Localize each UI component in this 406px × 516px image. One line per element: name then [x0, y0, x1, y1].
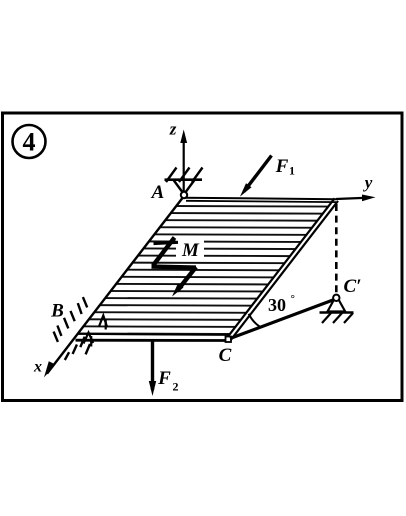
svg-text:C: C	[219, 345, 232, 366]
B support caret rods	[84, 316, 108, 347]
support at A: ceiling bar	[165, 178, 203, 181]
svg-text:M: M	[181, 240, 200, 261]
svg-text:1: 1	[289, 164, 295, 178]
z axis	[183, 134, 185, 194]
C' support ground line	[320, 311, 354, 314]
svg-text:30: 30	[268, 295, 286, 315]
z axis arrowhead	[180, 130, 187, 144]
support at A: V rod	[174, 180, 183, 193]
svg-text:A: A	[151, 182, 165, 203]
C' support triangle	[328, 300, 346, 312]
plate right edge (double line)	[227, 198, 335, 338]
x axis arrowhead	[44, 361, 56, 377]
rod C to C'	[230, 300, 333, 339]
angle arc at C	[249, 314, 261, 327]
force F2 arrow	[151, 339, 154, 390]
white halo behind M label	[176, 237, 204, 259]
svg-text:B: B	[50, 301, 64, 322]
svg-text:y: y	[363, 173, 373, 192]
y axis	[336, 198, 370, 199]
dashed line from top corner to C'	[335, 204, 338, 293]
marker square at C	[226, 337, 232, 343]
figure number circle 4	[13, 125, 46, 158]
plate bottom edge (double line)	[77, 334, 229, 335]
force F1 arrow	[244, 156, 272, 192]
B support lower hatching	[65, 337, 90, 360]
svg-text:z: z	[169, 120, 177, 139]
svg-text:F: F	[275, 156, 289, 177]
left edge + x axis line	[47, 196, 184, 374]
C' support ground hatches	[322, 313, 353, 323]
plate top edge (double line)	[184, 198, 336, 200]
B support hatching upper-left of edge	[54, 297, 88, 342]
support at A: ceiling hatches	[166, 168, 203, 183]
svg-text:C′: C′	[343, 276, 361, 297]
y axis arrowhead	[362, 195, 376, 202]
plate hatching	[60, 206, 345, 335]
svg-text:F: F	[157, 368, 171, 389]
border frame	[3, 113, 403, 401]
svg-text:°: °	[291, 293, 295, 305]
svg-text:4: 4	[23, 128, 36, 157]
svg-text:2: 2	[173, 380, 179, 394]
moment M zigzag arrow	[152, 238, 197, 292]
moment arrow crossbar	[154, 242, 179, 243]
hinge circle at A	[181, 192, 187, 198]
svg-text:x: x	[33, 359, 42, 376]
C' support hinge circle	[333, 295, 339, 301]
